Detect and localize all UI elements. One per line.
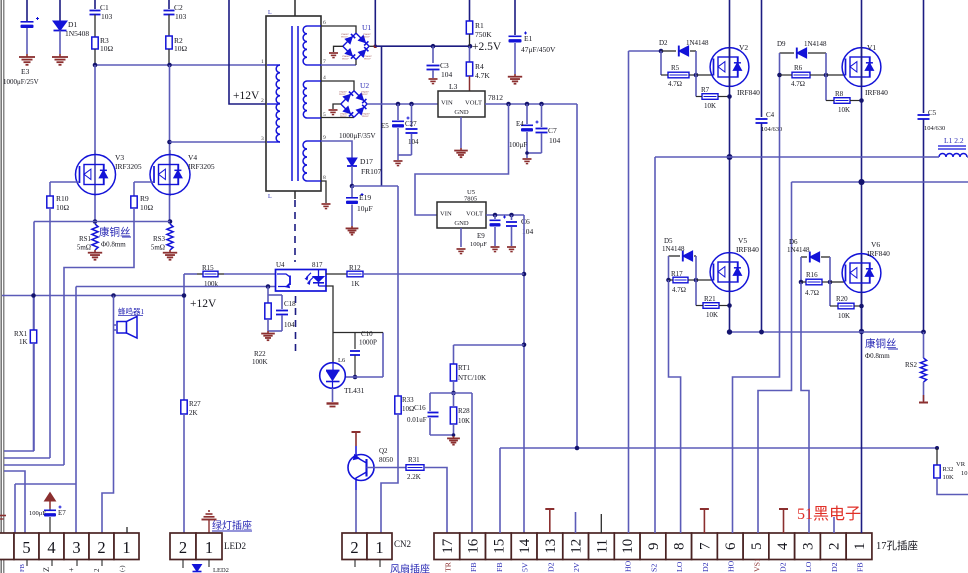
wire pin5 riser [4,471,25,533]
resistor R8 [826,75,862,114]
svg-text:IRF840: IRF840 [736,245,759,254]
svg-text:VIN: VIN [441,100,453,107]
node R17 right [694,256,699,282]
capacitor C6 [506,215,534,246]
svg-text:L3: L3 [449,82,458,91]
diode D5 [662,237,696,261]
label 51 black [797,505,861,523]
transistor Q2 8050 [348,446,394,490]
svg-text:U4: U4 [276,261,285,269]
J1 bottom stubs [27,560,102,567]
svg-text:104: 104 [441,70,453,79]
ground pin8 [322,204,331,209]
wire E5 C27 join [398,155,412,160]
label LED2 [224,541,246,551]
svg-text:10Ω: 10Ω [174,44,188,53]
sheet border [1,0,4,573]
svg-text:16: 16 [466,538,482,554]
svg-text:4.7K: 4.7K [475,71,490,80]
wire net row U4pin2 [76,284,275,289]
capacitor C2 [164,0,187,36]
wire U5 gnd [460,228,462,247]
svg-text:1N4148: 1N4148 [787,246,810,254]
capacitor C16 [407,393,455,437]
resistor R31 [406,456,424,481]
wire V1 gate [826,74,845,76]
svg-text:10: 10 [961,470,968,477]
wire pin6 to U1 [321,26,356,34]
svg-text:U1: U1 [362,23,371,32]
svg-text:C5: C5 [928,109,937,117]
svg-text:+2.5V: +2.5V [472,41,502,53]
svg-text:10K: 10K [943,474,955,481]
wire +2.5V rail [375,44,472,49]
label VR [956,461,968,477]
svg-text:RT1: RT1 [458,364,471,372]
wire D2 node left [660,51,662,75]
wire D2 feed [629,49,664,54]
black stub pin11 [600,514,602,533]
label kangtongsi 1 [99,226,131,249]
svg-text:1N4148: 1N4148 [686,39,709,47]
connector CN1 pin 3 [795,533,821,560]
wire D9 node column pin6 [733,53,782,533]
svg-text:+12V: +12V [233,90,260,102]
svg-text:IRF3205: IRF3205 [188,162,215,171]
mosfet V4 IRF3205 [150,150,215,196]
resistor R3 [92,36,114,64]
wire pin7 to U1 [321,60,356,66]
wire net row y295 [2,293,184,298]
svg-text:11: 11 [594,539,610,553]
wire V6 source [859,292,864,533]
svg-text:4.7Ω: 4.7Ω [672,286,686,294]
connector J1 partial pin [0,533,14,560]
ground E4 [523,159,532,164]
wire pin5 to U2 [321,117,354,119]
node RT1 R28 [451,391,456,396]
capacitor E3 [3,0,39,86]
svg-text:R15: R15 [202,264,214,272]
svg-text:VOLT: VOLT [465,100,482,107]
svg-text:6: 6 [723,542,739,550]
svg-text:10K: 10K [458,417,470,425]
svg-text:10K: 10K [704,102,716,110]
wire V4 source [168,219,173,224]
wire hv rail2 [792,179,968,185]
svg-text:HO: HO [624,560,633,572]
wire D6 jog pin3 [801,282,809,533]
svg-text:CN2: CN2 [394,539,411,549]
wire V5 gate [696,279,713,281]
resistor R16 [801,271,830,297]
svg-text:103: 103 [101,12,113,21]
ground RS3 [163,250,177,260]
svg-text:R5: R5 [671,64,680,72]
svg-text:D2: D2 [546,562,555,572]
wire +12V feed [229,0,267,104]
isolation dashed line [294,200,297,356]
svg-text:Φ0.8mm: Φ0.8mm [101,241,126,249]
wire +5V row [454,344,525,346]
svg-text:R31: R31 [408,456,420,464]
svg-text:FR107: FR107 [361,93,368,96]
svg-text:10K: 10K [838,312,850,320]
svg-text:8: 8 [323,175,326,181]
svg-text:7805: 7805 [464,196,478,203]
svg-text:NTC/10K: NTC/10K [458,374,486,382]
svg-text:750K: 750K [475,30,492,39]
svg-text:4: 4 [47,538,55,557]
svg-text:V1: V1 [867,43,876,52]
svg-text:V2: V2 [739,43,748,52]
wire FB to pin16 [454,393,473,533]
svg-text:100μF: 100μF [29,510,46,517]
svg-text:IRF840: IRF840 [865,88,888,97]
svg-text:E19: E19 [359,193,371,202]
svg-text:51黑电子: 51黑电子 [797,505,861,523]
svg-text:TL431: TL431 [344,386,365,395]
svg-text:LED2: LED2 [213,567,229,573]
wire +12V column [182,274,187,400]
mosfet V3 IRF3205 [76,150,142,196]
red tick left border [0,516,6,520]
svg-text:IRF3205: IRF3205 [115,162,142,171]
wire R33 to CN2pin1 [381,414,398,533]
mosfet V6 IRF840 [842,240,890,292]
svg-text:12: 12 [569,539,585,554]
ground R22 [261,331,275,340]
svg-text:FR107: FR107 [340,115,347,118]
ground RS1 [88,250,102,260]
svg-text:Z: Z [42,567,51,572]
svg-text:R17: R17 [671,270,683,278]
connector CN1 pin 13 [537,533,563,560]
capacitor C27 [405,104,419,155]
wire U4 to R12 [326,273,347,275]
wire main top rail [93,63,267,68]
wire buzzer riser [102,296,114,534]
svg-text:C16: C16 [414,404,426,412]
svg-text:5mΩ: 5mΩ [151,244,165,252]
svg-text:IRF840: IRF840 [867,249,890,258]
svg-text:104: 104 [408,138,419,146]
svg-text:R7: R7 [701,86,710,94]
svg-text:10K: 10K [706,311,718,319]
wire D5 node [666,256,671,282]
wire aux down column [381,46,383,186]
svg-text:R33: R33 [402,396,414,404]
svg-text:5: 5 [749,543,765,551]
capacitor E7 [29,506,66,534]
svg-text:绿灯插座: 绿灯插座 [212,519,252,532]
connector CN1 pin 2 [820,533,846,560]
mosfet V1 IRF840 [842,43,888,97]
wire V3 source [93,219,98,224]
resistor R4 [466,46,490,91]
svg-text:LO: LO [804,561,813,572]
label +2.5V [472,41,502,53]
svg-text:8050: 8050 [379,456,394,464]
resistor R2 [166,36,188,64]
svg-text:C3: C3 [440,61,449,70]
blue stub pin12 [575,512,577,533]
wire R31 to pin17 [424,468,447,534]
diode D9 [777,40,827,58]
svg-text:V4: V4 [188,153,197,162]
capacitor C1 [90,0,113,37]
ground of E3 [19,54,35,65]
svg-text:10: 10 [620,539,636,554]
wire E4 C7 join [525,151,541,158]
wire 7812 rail down [576,104,578,448]
node R6 right [824,53,829,77]
svg-text:V3: V3 [115,153,124,162]
connector CN1 pin 4 [769,533,795,560]
node R16 right [828,257,833,284]
ground C3 [429,79,438,84]
wire R10 down [49,208,51,458]
svg-text:U2: U2 [360,81,369,90]
node U1 plus [370,44,378,48]
capacitor C7 [536,104,561,153]
svg-text:FB: FB [469,562,478,572]
svg-text:D2: D2 [659,39,668,47]
svg-text:2: 2 [93,568,101,572]
connector CN1 pin 9 [640,533,666,560]
wire V4 gate [134,182,153,196]
svg-text:10K: 10K [838,106,850,114]
svg-text:R8: R8 [835,90,844,98]
svg-text:R28: R28 [458,407,470,415]
shunt RS3 [151,224,173,252]
svg-text:1N5408: 1N5408 [65,29,89,38]
wire transformer pin8 to ground [321,181,326,203]
resistor R9 [131,194,154,212]
ground of D1 [52,54,68,65]
svg-text:风扇插座: 风扇插座 [390,563,430,573]
connector CN1 pin 6 [717,533,743,560]
svg-text:5: 5 [22,538,30,557]
LED2 below stubs [183,560,229,573]
svg-text:2.2K: 2.2K [407,473,421,481]
svg-text:+: + [67,567,76,572]
ground C6 [507,247,516,252]
resistor R15 [184,264,275,288]
svg-text:GND: GND [454,220,469,227]
tl431 anode [327,388,339,407]
wire R33 column top [397,186,399,396]
svg-text:1: 1 [261,59,264,65]
connector CN1 pin 14 [511,533,537,560]
svg-text:C1: C1 [100,3,109,12]
svg-text:L: L [268,194,272,200]
svg-text:C27: C27 [405,120,417,128]
svg-text:蜂鸣器1: 蜂鸣器1 [118,306,144,316]
svg-text:1000P: 1000P [359,339,377,347]
connector CN1 pin 5 [743,533,769,560]
shunt RS1 [77,224,98,252]
ground R28 [447,436,460,445]
svg-text:4: 4 [775,542,791,550]
svg-text:9: 9 [646,543,662,551]
svg-text:4.7Ω: 4.7Ω [668,80,682,88]
svg-text:C4: C4 [766,111,775,119]
capacitor E1 [509,0,557,74]
svg-text:13: 13 [543,539,559,554]
mosfet V2 IRF840 [710,43,760,97]
svg-text:4.7Ω: 4.7Ω [805,289,819,297]
connector CN1 pin 1 [846,533,872,560]
wire aux node row [352,185,398,187]
svg-text:7812: 7812 [488,93,503,102]
shunt RS2 [905,332,927,401]
wire R9 jog [64,208,134,465]
label 17 hole socket [876,539,918,552]
svg-text:104/630: 104/630 [924,125,945,132]
wire U1 minus to ground [329,46,343,57]
svg-text:5V: 5V [521,562,530,572]
svg-text:2: 2 [179,538,187,557]
svg-text:RS3: RS3 [153,235,166,243]
svg-text:C2: C2 [174,3,183,12]
wire V6 gate [830,281,845,283]
svg-text:LED2: LED2 [224,541,246,551]
svg-text:D9: D9 [777,40,786,48]
svg-text:C18: C18 [284,300,296,308]
wire U5 out rail [486,213,524,218]
wire drive bus pin10 [628,51,630,533]
svg-text:100μF: 100μF [509,141,527,149]
wire V2 drain column [727,0,733,332]
wire pin9 to D17 [321,141,352,155]
resistor R6 [780,64,827,88]
CN1 net labels [443,558,864,572]
connector CN1 pin 7 [692,533,718,560]
svg-text:R9: R9 [140,194,149,203]
svg-text:E5: E5 [381,122,389,130]
wire L3 gnd [460,117,462,148]
wire D5 jog pin8 [669,280,681,533]
svg-text:VIN: VIN [440,211,452,218]
connector CN1 pin 10 [614,533,640,560]
label +12V lower [190,298,217,310]
svg-text:4: 4 [323,75,326,81]
connector CN1 pin 11 [589,533,615,560]
svg-text:E7: E7 [58,509,66,517]
ground E19 [346,226,359,235]
svg-text:FR107: FR107 [361,167,382,176]
capacitor C10 [350,330,377,377]
diode D17 [347,155,382,186]
svg-text:VS1: VS1 [753,558,762,572]
wire Q2 emitter [355,490,357,533]
svg-text:2K: 2K [189,409,198,417]
wire D9 feed [780,52,795,54]
svg-text:10Ω: 10Ω [56,203,70,212]
connector CN1 pin 17 [434,533,460,560]
mosfet V5 IRF840 [710,236,759,291]
svg-text:R12: R12 [349,264,361,272]
svg-text:FR107: FR107 [342,57,349,60]
capacitor C4 [756,0,783,334]
svg-text:VOLT: VOLT [466,211,483,218]
svg-text:17: 17 [440,538,456,554]
svg-text:R21: R21 [704,295,716,303]
red stub pin7 [700,509,709,533]
diode D1 [53,0,89,54]
inductor L1 [925,136,968,157]
svg-text:FR107: FR107 [341,35,348,38]
connector CN1 pin 12 [563,533,589,560]
svg-text:RS1: RS1 [79,235,92,243]
svg-text:V5: V5 [738,236,747,245]
wire V2 gate [696,74,713,76]
ground E1 [508,74,522,84]
svg-text:R22: R22 [254,350,266,358]
svg-text:C6: C6 [521,217,530,226]
capacitor E19 [346,186,373,226]
bridge rectifier U1 [341,23,373,60]
node V5 source [727,303,732,308]
svg-text:10Ω: 10Ω [140,203,154,212]
svg-text:10μF: 10μF [357,204,373,213]
wire TL431 k row [345,333,383,378]
CN2 below stubs [355,560,380,568]
svg-text:R1: R1 [475,21,484,30]
svg-text:L1 2.2: L1 2.2 [944,136,964,145]
svg-text:FR107: FR107 [363,35,370,38]
ground E5 [394,161,403,166]
svg-text:104: 104 [284,321,295,329]
svg-text:R27: R27 [189,400,201,408]
red stub pin4 [779,509,788,533]
capacitor C3 [427,46,453,79]
diode D2 [659,39,709,56]
svg-text:R32: R32 [943,466,954,473]
svg-text:7: 7 [323,59,326,65]
svg-text:康铜丝: 康铜丝 [865,337,897,350]
wire Q2 base to R31 [367,467,407,469]
wire hv rail1 [655,157,925,533]
svg-text:2: 2 [350,538,358,557]
connector J1 pin 4 [39,533,64,560]
svg-text:1: 1 [122,538,130,557]
svg-text:D6: D6 [789,238,798,246]
red stub pin13 [545,509,554,533]
resistor R5 [661,64,696,88]
resistor R21 [696,280,730,319]
red T RS2 [919,395,928,403]
svg-text:2: 2 [826,543,842,551]
svg-text:103: 103 [175,12,187,21]
svg-text:R6: R6 [794,64,803,72]
svg-text:2: 2 [97,538,105,557]
svg-text:10Ω: 10Ω [100,44,114,53]
label 1000uF/35V [339,132,376,140]
svg-text:15: 15 [491,539,507,554]
svg-text:S2: S2 [649,564,658,572]
wire 7812 to U5 vin [415,104,509,215]
connector LED2 pin 2 [170,533,196,560]
svg-text:D17: D17 [360,157,373,166]
node D17 [350,184,355,189]
svg-text:1000μF/35V: 1000μF/35V [339,132,376,140]
label kangtongsi 2 [865,337,898,360]
svg-text:D1: D1 [68,20,77,29]
svg-text:E1: E1 [524,34,533,43]
resistor R12 [347,264,524,288]
